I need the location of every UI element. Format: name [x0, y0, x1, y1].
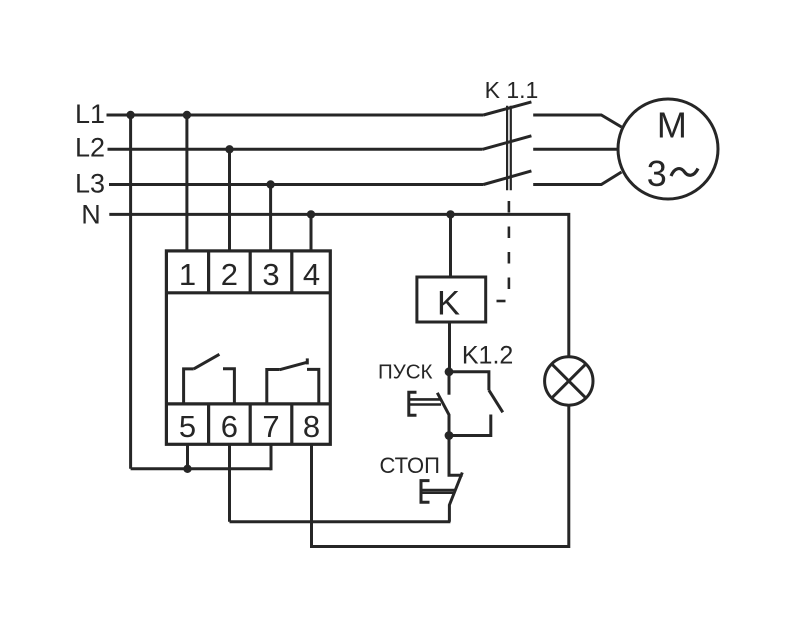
wire N bus to lamp — [109, 214, 569, 357]
svg-text:K 1.1: K 1.1 — [485, 77, 539, 103]
relay module top terminal strip line — [166, 291, 330, 294]
svg-text:6: 6 — [221, 409, 238, 444]
svg-text:ПУСК: ПУСК — [378, 361, 433, 384]
stop button cap — [421, 481, 430, 503]
wire L2 bus — [108, 148, 483, 151]
relay contact 7-8 NC tick — [306, 358, 309, 364]
motor tilde — [671, 169, 698, 177]
relay contact K1.2 blade — [489, 390, 503, 412]
wire terminal 8 riser to lamp — [312, 405, 569, 547]
start button rod upper — [409, 398, 441, 401]
wire bridge terminals 5-7 — [131, 467, 271, 470]
svg-text:4: 4 — [303, 257, 320, 292]
svg-text:2: 2 — [221, 257, 238, 292]
svg-text:L1: L1 — [75, 99, 105, 129]
wire L2 contact to motor — [533, 148, 617, 151]
svg-text:СТОП: СТОП — [379, 453, 440, 478]
relay contact 7-8 NC blade — [280, 362, 307, 369]
wire riser L2 to terminal 2 — [228, 149, 231, 252]
contactor K1.1 linkage bar left — [506, 106, 508, 191]
svg-text:8: 8 — [303, 409, 320, 444]
linkage dash to coil — [497, 300, 506, 303]
contactor K1.1 blade L1 — [484, 102, 532, 115]
relay contact 5-6 NO right arm — [223, 369, 234, 404]
terminal divider 3-4 — [290, 251, 293, 293]
coil K box — [417, 277, 486, 322]
node L1-left junction — [126, 111, 134, 119]
stop button rod upper — [421, 489, 455, 492]
relay contact K1.2 top wire — [449, 372, 489, 390]
relay contact 7-8 NC right arm — [307, 369, 319, 404]
contactor K1.1 blade L3 — [484, 171, 532, 185]
wire riser L1 to bridge — [129, 115, 132, 469]
wire N to coil K — [449, 214, 452, 277]
node L2-terminal2 junction — [225, 145, 233, 153]
node N-coil junction — [446, 210, 454, 218]
wire L3 contact to motor — [533, 172, 621, 185]
svg-text:N: N — [81, 200, 101, 230]
relay contact K1.2 bottom wire — [449, 415, 491, 436]
wire riser L1 to terminal 1 — [185, 115, 188, 252]
wire terminal 5 riser — [186, 444, 189, 469]
wire terminal 6 to stop button — [230, 520, 451, 523]
node L1-terminal1 junction — [183, 111, 191, 119]
contactor K1.1 linkage bar right — [510, 106, 512, 191]
terminal divider 1-2 — [207, 251, 210, 293]
svg-text:M: M — [657, 104, 687, 145]
lamp circle — [545, 357, 593, 405]
stop button upper terminal and seat — [449, 436, 463, 476]
svg-text:L3: L3 — [75, 169, 105, 199]
wire terminal 6 riser — [228, 444, 231, 522]
start button upper terminal — [448, 372, 451, 395]
terminal divider 5-6 — [207, 404, 210, 444]
svg-text:3: 3 — [647, 153, 667, 194]
wire riser N to terminal 4 — [310, 214, 313, 252]
wire L1 bus — [107, 114, 484, 117]
linkage dashed line — [508, 201, 511, 289]
wire L3 bus — [109, 183, 484, 186]
stop button blade — [449, 473, 462, 522]
relay module outline — [166, 251, 330, 444]
terminal divider 6-7 — [249, 404, 252, 444]
svg-text:L2: L2 — [75, 133, 105, 163]
start button rod lower — [409, 403, 441, 406]
wire coil K to start node — [448, 322, 451, 372]
start button blade — [437, 393, 449, 437]
lamp cross stroke 2 — [552, 364, 586, 398]
node start-top junction — [445, 367, 454, 376]
node start-bottom junction — [445, 431, 454, 440]
start button cap — [409, 392, 417, 415]
svg-text:K: K — [437, 285, 460, 323]
motor M circle — [618, 99, 718, 199]
relay contact 5-6 NO left arm — [184, 369, 194, 404]
svg-text:1: 1 — [179, 257, 196, 292]
node bridge-terminal5 junction — [183, 465, 191, 473]
node N-terminal4 junction — [307, 210, 315, 218]
wire terminal 7 riser — [270, 444, 273, 470]
stop button rod lower — [421, 491, 455, 494]
contactor K1.1 blade L2 — [483, 136, 532, 150]
wire L1 contact to motor — [533, 115, 621, 127]
svg-text:K1.2: K1.2 — [462, 341, 513, 369]
lamp cross stroke 1 — [552, 364, 586, 398]
terminal divider 7-8 — [290, 404, 293, 444]
svg-text:3: 3 — [262, 257, 279, 292]
terminal divider 2-3 — [249, 251, 252, 293]
node L3-terminal3 junction — [266, 180, 274, 188]
relay contact 7-8 NC left arm — [267, 370, 280, 404]
wire riser L3 to terminal 3 — [269, 185, 272, 253]
relay module bottom terminal strip line — [166, 402, 330, 405]
svg-text:5: 5 — [179, 409, 196, 444]
svg-text:7: 7 — [262, 409, 279, 444]
relay contact 5-6 NO blade — [194, 354, 220, 369]
